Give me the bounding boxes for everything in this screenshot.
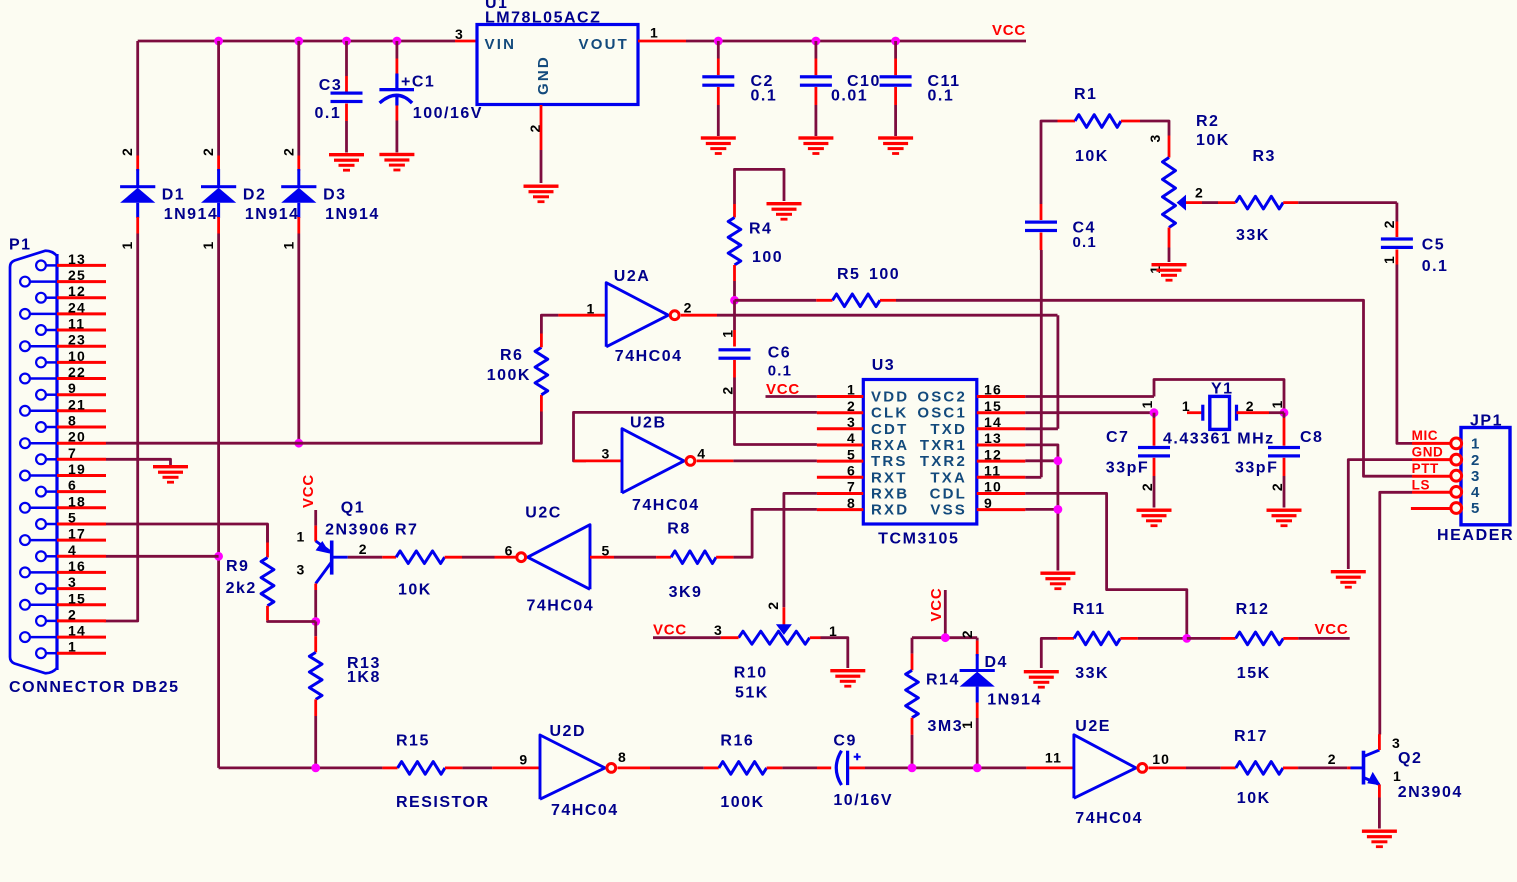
pin 22 P1 <box>20 374 30 384</box>
wire VCC to R14/D4 <box>944 590 947 638</box>
svg-text:CDT: CDT <box>871 421 908 438</box>
svg-text:15: 15 <box>68 590 86 606</box>
svg-text:PTT: PTT <box>1412 461 1439 476</box>
node R11-R12-CDL <box>1182 634 1191 643</box>
svg-text:HEADER: HEADER <box>1437 527 1514 544</box>
wire VCC to VDD <box>766 395 817 398</box>
node R13-R15 <box>311 764 320 773</box>
wire RXB to R10 wiper <box>784 493 817 607</box>
wire P1 pin4 to D2 column <box>106 555 219 558</box>
resistor R13 1K8 <box>314 622 317 637</box>
svg-text:RXD: RXD <box>871 502 909 519</box>
pin 14 U3 TXD <box>977 427 1026 430</box>
svg-text:10/16V: 10/16V <box>833 792 893 809</box>
node Q1 collector <box>311 617 320 626</box>
svg-text:1: 1 <box>297 529 306 545</box>
capacitor C11 <box>894 41 897 59</box>
pin 15 P1 <box>20 600 30 610</box>
wire CLK to U2B input <box>574 412 817 461</box>
capacitor C9 electrolytic 10/16V <box>836 751 841 785</box>
svg-text:9: 9 <box>68 380 77 396</box>
ground R11 <box>1024 670 1059 689</box>
svg-text:2: 2 <box>1328 751 1337 767</box>
svg-text:0.1: 0.1 <box>1073 234 1097 251</box>
svg-text:2: 2 <box>1381 219 1397 228</box>
pin 6 P1 <box>36 487 46 497</box>
diode D1 1N914 <box>136 41 139 156</box>
connector JP1 HEADER <box>1461 428 1510 525</box>
wire D2 column <box>217 234 220 768</box>
pin 5 P1 <box>36 519 46 529</box>
svg-text:R16: R16 <box>720 732 754 749</box>
svg-text:10K: 10K <box>398 582 432 599</box>
pin 2 U3 CLK <box>817 411 863 414</box>
svg-text:RESISTOR: RESISTOR <box>396 794 490 811</box>
svg-text:U3: U3 <box>872 357 895 374</box>
svg-text:16: 16 <box>68 558 86 574</box>
svg-text:TCM3105: TCM3105 <box>878 531 959 548</box>
svg-text:R1: R1 <box>1074 86 1097 103</box>
wire GND JP1 <box>1412 458 1451 461</box>
wire D1 to DB25 pin 2 <box>104 234 137 622</box>
svg-text:2: 2 <box>959 629 975 638</box>
svg-text:RXA: RXA <box>871 437 909 454</box>
pin 7 P1 <box>36 454 46 464</box>
svg-text:0.01: 0.01 <box>831 88 868 105</box>
capacitor C4 <box>1040 204 1043 220</box>
svg-text:1: 1 <box>1471 436 1482 453</box>
resistor R12 15K <box>1187 637 1221 640</box>
resistor R9 2k2 <box>266 541 269 544</box>
svg-text:Q2: Q2 <box>1398 750 1422 767</box>
svg-text:74HC04: 74HC04 <box>551 802 619 819</box>
svg-text:3: 3 <box>1147 134 1163 143</box>
svg-text:74HC04: 74HC04 <box>632 497 700 514</box>
pin 4 JP1 <box>1451 487 1462 498</box>
svg-text:U2A: U2A <box>614 268 651 285</box>
op-amp U2C 74HC04 inverter <box>528 525 590 590</box>
svg-text:JP1: JP1 <box>1470 413 1503 430</box>
svg-text:10: 10 <box>1152 751 1170 767</box>
svg-text:R10: R10 <box>734 664 768 681</box>
svg-text:9: 9 <box>984 495 993 511</box>
pin 1 JP1 <box>1451 438 1462 449</box>
wire OSC2 to Y1 pin2 <box>1025 395 1154 398</box>
node rail-D2 <box>214 37 223 46</box>
svg-text:VCC: VCC <box>1315 621 1349 638</box>
svg-text:1: 1 <box>587 300 596 316</box>
svg-text:C5: C5 <box>1422 237 1445 254</box>
wire C4 to TXA <box>1040 250 1043 477</box>
svg-text:12: 12 <box>984 446 1002 462</box>
svg-text:14: 14 <box>984 414 1002 430</box>
svg-text:74HC04: 74HC04 <box>527 598 595 615</box>
pin 16 P1 <box>20 568 30 578</box>
svg-text:MIC: MIC <box>1412 428 1439 443</box>
wire U2A output <box>681 314 717 317</box>
wire VCC rail <box>686 40 1026 43</box>
node D3-pin20 <box>294 439 303 448</box>
svg-text:1: 1 <box>1393 768 1402 784</box>
IC U3 TCM3105 <box>863 380 977 525</box>
node D2-pin4 <box>214 552 223 561</box>
svg-text:100: 100 <box>752 249 783 266</box>
svg-text:100/16V: 100/16V <box>413 105 483 122</box>
pin 3 U3 CDT <box>817 427 863 430</box>
svg-text:10: 10 <box>68 348 86 364</box>
pin 10 P1 <box>36 358 46 368</box>
pin 2 P1 <box>36 616 46 626</box>
svg-text:R17: R17 <box>1234 728 1268 745</box>
capacitor C2 <box>717 41 720 59</box>
svg-text:3: 3 <box>847 414 856 430</box>
svg-text:VSS: VSS <box>930 502 967 519</box>
svg-text:R5: R5 <box>837 266 860 283</box>
svg-text:1: 1 <box>68 639 77 655</box>
node VSS <box>1054 505 1063 514</box>
node R4-R5-C6 <box>730 296 739 305</box>
voltage regulator U1 <box>477 25 638 105</box>
svg-text:CONNECTOR DB25: CONNECTOR DB25 <box>9 679 180 696</box>
svg-text:C6: C6 <box>768 345 791 362</box>
svg-text:TXA: TXA <box>930 469 967 486</box>
pin 25 P1 <box>20 277 30 287</box>
svg-text:1N914: 1N914 <box>325 206 380 223</box>
svg-text:1: 1 <box>650 25 659 41</box>
ground C3 <box>329 153 364 172</box>
svg-text:1: 1 <box>280 241 296 250</box>
svg-text:D4: D4 <box>985 654 1008 671</box>
svg-text:U2E: U2E <box>1075 718 1111 735</box>
svg-text:Y1: Y1 <box>1211 380 1234 397</box>
ground C7 <box>1137 509 1172 528</box>
svg-text:2: 2 <box>765 601 781 610</box>
svg-text:TRS: TRS <box>871 453 908 470</box>
node C9-R14 <box>908 764 917 773</box>
wire MIC <box>1412 442 1451 445</box>
svg-text:3K9: 3K9 <box>669 584 703 601</box>
resistor R6 100K <box>540 395 543 412</box>
svg-text:6: 6 <box>68 477 77 493</box>
svg-text:2: 2 <box>68 606 77 622</box>
ground C11 <box>878 136 913 155</box>
svg-text:7: 7 <box>68 445 77 461</box>
wire PTT <box>1412 475 1451 478</box>
op-amp U2D 74HC04 inverter <box>540 735 605 799</box>
wire VIN rail <box>138 40 455 43</box>
capacitor C6 <box>733 300 736 330</box>
op-amp U2A 74HC04 inverter <box>606 283 668 347</box>
svg-text:D2: D2 <box>243 186 266 203</box>
pin 11 P1 <box>36 325 46 335</box>
potentiometer R10 51K <box>776 624 792 635</box>
ground U1 <box>524 185 559 204</box>
ground C2 <box>701 136 736 155</box>
wire U1 GND <box>540 105 543 150</box>
svg-text:3: 3 <box>1392 735 1401 751</box>
svg-text:3: 3 <box>455 26 464 42</box>
resistor R7 10K <box>348 556 383 559</box>
svg-text:1: 1 <box>1139 400 1155 409</box>
ground Q2 <box>1362 830 1397 849</box>
pin 3 JP1 <box>1451 470 1462 481</box>
potentiometer R2 10K <box>1168 136 1171 158</box>
pin 8 U3 RXD <box>817 508 863 511</box>
pin 4 U3 RXA <box>817 444 863 447</box>
node VCC-R14-D4 <box>941 633 950 642</box>
resistor R5 100 <box>735 299 817 302</box>
svg-text:33pF: 33pF <box>1235 459 1278 476</box>
svg-text:1: 1 <box>847 382 856 398</box>
connector P1 DB25 <box>10 251 57 673</box>
wire bottom row <box>219 767 383 770</box>
svg-text:33K: 33K <box>1236 227 1270 244</box>
svg-text:9: 9 <box>519 751 528 767</box>
ground C10 <box>798 136 833 155</box>
svg-text:11: 11 <box>68 316 85 332</box>
svg-text:1: 1 <box>959 720 975 729</box>
op-amp U2E 74HC04 inverter <box>1074 735 1136 798</box>
pin 9 P1 <box>36 390 46 400</box>
svg-text:10: 10 <box>984 479 1002 495</box>
svg-text:15K: 15K <box>1237 665 1271 682</box>
svg-text:VOUT: VOUT <box>579 36 629 53</box>
svg-text:12: 12 <box>68 283 86 299</box>
wire OSC1 to Y1 pin1 <box>1025 411 1154 414</box>
diode D4 1N914 <box>976 638 979 641</box>
wire U2A output vertical <box>1057 315 1060 429</box>
node rail-D3 <box>294 37 303 46</box>
svg-text:24: 24 <box>68 299 86 315</box>
node OSC1-C7 <box>1150 408 1159 417</box>
svg-text:U2B: U2B <box>630 415 667 432</box>
svg-text:R6: R6 <box>500 347 523 364</box>
svg-text:15: 15 <box>984 398 1002 414</box>
svg-text:RXT: RXT <box>871 469 908 486</box>
pin 16 U3 OSC2 <box>977 395 1026 398</box>
svg-text:3: 3 <box>1471 468 1482 485</box>
node OSC2-C8 <box>1280 408 1289 417</box>
svg-text:5: 5 <box>1471 500 1482 517</box>
svg-text:25: 25 <box>68 267 86 283</box>
svg-text:2: 2 <box>200 147 216 156</box>
svg-text:TXR1: TXR1 <box>920 437 967 454</box>
pin 18 P1 <box>20 503 30 513</box>
pin 13 U3 TXR1 <box>977 444 1026 447</box>
svg-text:VIN: VIN <box>485 36 517 53</box>
capacitor C7 33pF <box>1153 413 1156 418</box>
pin 15 U3 OSC1 <box>977 411 1026 414</box>
svg-text:3: 3 <box>297 562 306 578</box>
svg-text:100K: 100K <box>487 367 531 384</box>
capacitor C5 0.1 <box>1396 203 1399 222</box>
transistor Q1 2N3906 <box>314 510 317 526</box>
svg-text:0.1: 0.1 <box>928 88 955 105</box>
svg-text:6: 6 <box>505 542 514 558</box>
svg-text:0.1: 0.1 <box>1422 258 1449 275</box>
ground R10 <box>830 669 865 688</box>
svg-text:20: 20 <box>68 429 86 445</box>
pin 14 P1 <box>20 632 30 642</box>
wire LS <box>1412 491 1451 494</box>
pin 19 P1 <box>20 471 30 481</box>
pin 1 U3 VDD <box>817 395 863 398</box>
svg-text:2k2: 2k2 <box>226 580 257 597</box>
svg-text:8: 8 <box>847 495 856 511</box>
wire P1 pin20 to R6 <box>106 412 541 444</box>
resistor R14 3M3 <box>911 638 914 654</box>
pin 8 P1 <box>36 422 46 432</box>
svg-text:CLK: CLK <box>871 405 908 422</box>
svg-text:VCC: VCC <box>300 474 317 508</box>
svg-text:+C1: +C1 <box>401 74 435 91</box>
svg-text:R9: R9 <box>226 558 249 575</box>
svg-text:3: 3 <box>68 574 77 590</box>
svg-text:16: 16 <box>984 382 1002 398</box>
ground C1 <box>379 153 414 172</box>
svg-text:R3: R3 <box>1253 148 1276 165</box>
pin 9 U3 VSS <box>977 508 1026 511</box>
wire U2B output to TRS <box>697 459 734 462</box>
node rail-C1 <box>393 37 402 46</box>
pin 10 U3 CDL <box>977 492 1026 495</box>
svg-text:74HC04: 74HC04 <box>615 348 683 365</box>
wire TXD to U2A output <box>1025 427 1058 430</box>
svg-text:VCC: VCC <box>653 622 687 639</box>
svg-text:23: 23 <box>68 332 86 348</box>
pin 20 P1 <box>20 438 30 448</box>
svg-text:14: 14 <box>68 623 86 639</box>
wire R5 to JP1 PTT <box>896 300 1412 476</box>
svg-text:5: 5 <box>68 510 77 526</box>
resistor R15 RESISTOR <box>382 767 397 770</box>
node D4-bottom <box>973 764 982 773</box>
wire U2D output <box>618 767 651 770</box>
pin 13 P1 <box>36 261 46 271</box>
svg-text:1N914: 1N914 <box>245 206 300 223</box>
resistor R16 100K <box>704 767 719 770</box>
svg-text:4: 4 <box>1471 484 1482 501</box>
wire P1 pin7 to ground <box>106 459 171 465</box>
svg-text:100K: 100K <box>720 794 764 811</box>
svg-text:R2: R2 <box>1196 113 1219 130</box>
ground C8 <box>1267 509 1302 528</box>
svg-text:2: 2 <box>720 386 736 395</box>
svg-text:VCC: VCC <box>928 588 945 622</box>
svg-text:C7: C7 <box>1106 429 1129 446</box>
ground R4 <box>767 202 802 221</box>
wire U2E output <box>1149 767 1187 770</box>
wire P1 pin5 to R9 <box>106 524 268 543</box>
svg-text:3: 3 <box>714 622 723 638</box>
pin 24 P1 <box>20 309 30 319</box>
svg-text:0.1: 0.1 <box>315 105 342 122</box>
svg-text:1K8: 1K8 <box>347 669 381 686</box>
svg-text:8: 8 <box>68 413 77 429</box>
svg-text:TXD: TXD <box>930 421 967 438</box>
pin 6 U3 RXT <box>817 476 863 479</box>
svg-text:4: 4 <box>697 446 706 462</box>
wire TXR2/VSS to ground <box>1025 459 1058 462</box>
pin 5 U3 TRS <box>817 460 863 463</box>
svg-text:17: 17 <box>68 526 86 542</box>
svg-text:1: 1 <box>1269 400 1285 409</box>
svg-text:CDL: CDL <box>930 486 967 503</box>
svg-text:13: 13 <box>984 430 1002 446</box>
resistor R1 10K <box>1041 121 1058 204</box>
svg-text:33pF: 33pF <box>1106 459 1149 476</box>
pin 12 P1 <box>36 293 46 303</box>
pin 5 JP1 <box>1451 503 1462 514</box>
capacitor C1 electrolytic <box>395 41 398 59</box>
resistor R4 100 <box>735 169 785 204</box>
svg-text:Q1: Q1 <box>341 500 365 517</box>
svg-text:0.1: 0.1 <box>751 88 778 105</box>
svg-text:8: 8 <box>618 749 627 765</box>
svg-text:2: 2 <box>1246 398 1255 414</box>
svg-text:6: 6 <box>847 463 856 479</box>
svg-text:1: 1 <box>200 241 216 250</box>
svg-text:C8: C8 <box>1300 429 1323 446</box>
svg-text:P1: P1 <box>9 237 32 254</box>
svg-text:11: 11 <box>1045 750 1062 766</box>
capacitor C8 33pF <box>1283 413 1286 418</box>
wire U2E input <box>1026 767 1074 770</box>
crystal Y1 4.43361 MHz <box>1187 411 1203 414</box>
svg-text:4: 4 <box>847 430 856 446</box>
svg-text:U2D: U2D <box>550 723 587 740</box>
svg-text:D3: D3 <box>323 186 346 203</box>
svg-text:7: 7 <box>847 479 856 495</box>
svg-text:2: 2 <box>1195 185 1204 201</box>
svg-text:R12: R12 <box>1236 601 1270 618</box>
svg-text:OSC1: OSC1 <box>917 405 967 422</box>
ground R2 <box>1152 263 1187 282</box>
svg-text:4: 4 <box>68 542 77 558</box>
pin 11 U3 TXA <box>977 476 1026 479</box>
capacitor C3 <box>345 41 348 76</box>
svg-text:C9: C9 <box>833 732 856 749</box>
svg-text:D1: D1 <box>162 186 185 203</box>
svg-text:GND: GND <box>1412 445 1444 460</box>
svg-text:22: 22 <box>68 364 86 380</box>
ground P1 pin7 <box>153 465 188 484</box>
svg-text:R14: R14 <box>926 672 960 689</box>
wire CDL to R11/R12 node <box>1025 493 1187 638</box>
svg-text:11: 11 <box>984 463 1001 479</box>
wire TXR1 to TXR2 <box>1025 445 1058 461</box>
svg-text:C3: C3 <box>319 77 342 94</box>
capacitor C10 <box>815 41 818 59</box>
node rail-C3 <box>342 37 351 46</box>
svg-text:0.1: 0.1 <box>768 362 792 379</box>
svg-text:1: 1 <box>1381 255 1397 264</box>
svg-text:51K: 51K <box>735 685 769 702</box>
svg-text:1: 1 <box>1182 398 1191 414</box>
resistor R3 33K <box>1186 201 1202 204</box>
svg-text:2: 2 <box>1269 482 1285 491</box>
svg-text:U2C: U2C <box>525 504 562 521</box>
svg-text:21: 21 <box>68 396 86 412</box>
svg-text:R15: R15 <box>396 732 430 749</box>
svg-text:10K: 10K <box>1075 148 1109 165</box>
op-amp U2B 74HC04 inverter <box>622 429 684 493</box>
diode D2 1N914 <box>217 41 220 156</box>
svg-text:1: 1 <box>829 623 838 639</box>
svg-text:18: 18 <box>68 493 86 509</box>
svg-text:LM78L05ACZ: LM78L05ACZ <box>485 10 601 27</box>
svg-text:LS: LS <box>1412 478 1430 493</box>
